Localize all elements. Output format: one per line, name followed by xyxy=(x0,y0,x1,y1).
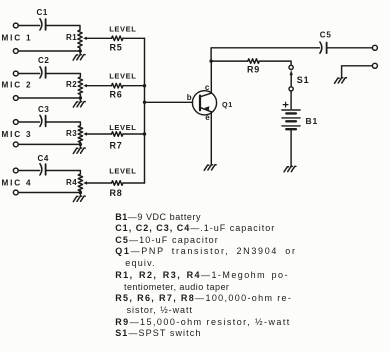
junction dot bus R7 xyxy=(143,132,146,135)
wire mic3 top xyxy=(18,121,39,123)
capacitor C4 xyxy=(40,164,46,175)
svg-text:R4: R4 xyxy=(66,178,77,187)
svg-text:MIC 1: MIC 1 xyxy=(2,33,33,42)
MIC 1 input jack terminals xyxy=(13,23,18,53)
svg-text:LEVEL: LEVEL xyxy=(109,123,136,132)
label + xyxy=(283,102,288,107)
MIC 2 input jack terminals xyxy=(13,71,18,100)
parts list line R1-R4 xyxy=(115,271,289,280)
svg-text:S1: S1 xyxy=(297,75,310,85)
parts list line R5-R8 xyxy=(115,294,292,303)
output terminal bottom xyxy=(372,63,377,68)
svg-text:R9: R9 xyxy=(247,65,260,75)
svg-text:R2: R2 xyxy=(66,80,77,89)
svg-text:C4: C4 xyxy=(38,154,49,163)
MIC 3 input jack terminals xyxy=(13,120,18,147)
capacitor C5 xyxy=(320,42,327,53)
parts list line C5 xyxy=(115,236,219,245)
wire summing bus xyxy=(144,38,146,183)
svg-text:C2: C2 xyxy=(38,56,49,65)
wire R3 bottom xyxy=(79,143,81,145)
parts list line equiv xyxy=(125,259,156,268)
parts list line S1 xyxy=(115,329,201,338)
transistor Q1 xyxy=(192,91,216,115)
ground under R4 xyxy=(73,193,85,202)
svg-text:R6: R6 xyxy=(110,90,123,100)
wire C4 to R4 top xyxy=(47,171,81,175)
wire mic1 top xyxy=(18,25,39,27)
potentiometer R4 xyxy=(78,174,82,191)
capacitor C3 xyxy=(40,115,46,126)
wire R6 to bus xyxy=(123,85,144,87)
battery B1 xyxy=(282,110,300,129)
wire R1 bottom to bus dot xyxy=(79,48,81,51)
parts list line sistor xyxy=(127,306,193,315)
wire bus to base xyxy=(145,101,193,103)
junction dot bus R6 xyxy=(143,84,146,87)
svg-text:R8: R8 xyxy=(110,188,123,198)
junction dot R2 bottom xyxy=(79,96,82,99)
wiper arrow R2 xyxy=(83,84,111,87)
capacitor C1 xyxy=(40,19,46,30)
wire output ground xyxy=(342,66,373,78)
wire C5 to output terminal xyxy=(328,47,373,49)
resistor R8 xyxy=(112,181,124,186)
parts list line Q1 xyxy=(115,247,296,256)
wire R2 bottom xyxy=(79,95,81,99)
parts list line B1 xyxy=(115,213,201,222)
potentiometer R2 xyxy=(78,77,82,95)
wire battery to ground xyxy=(290,130,292,166)
parts list line R9 xyxy=(115,318,291,327)
capacitor C2 xyxy=(40,67,46,78)
wire emitter down xyxy=(210,112,212,165)
junction dot bus base xyxy=(143,101,146,104)
svg-text:B1: B1 xyxy=(306,116,318,126)
ground battery xyxy=(284,166,296,172)
potentiometer R1 xyxy=(78,30,82,48)
svg-text:c: c xyxy=(205,83,210,92)
svg-text:R5: R5 xyxy=(110,42,123,52)
ground under R3 xyxy=(73,144,85,153)
wire R5 to bus xyxy=(123,37,144,39)
junction dot R3 bottom xyxy=(79,143,82,146)
wire R9 left segment xyxy=(211,60,248,62)
svg-text:LEVEL: LEVEL xyxy=(109,166,136,175)
resistor R6 xyxy=(112,83,124,88)
ground emitter xyxy=(204,165,216,171)
wire mic4 bottom xyxy=(18,192,80,194)
svg-text:MIC 2: MIC 2 xyxy=(2,81,33,90)
svg-text:R7: R7 xyxy=(110,141,123,151)
wiper arrow R4 xyxy=(83,181,111,184)
wire collector up xyxy=(210,61,212,93)
parts list line C1-C4 xyxy=(115,224,275,233)
svg-text:C3: C3 xyxy=(38,105,49,114)
wire mic2 bottom xyxy=(18,97,80,99)
svg-text:MIC 4: MIC 4 xyxy=(2,178,33,187)
wire mic4 top xyxy=(18,170,39,172)
parts list line tentiometer xyxy=(124,283,229,292)
svg-text:e: e xyxy=(205,113,210,122)
junction dot R1 bottom xyxy=(79,49,82,52)
svg-text:C1: C1 xyxy=(37,8,48,17)
wire collector to top rail xyxy=(211,48,320,61)
resistor R7 xyxy=(112,132,124,137)
wire R8 to bus xyxy=(123,182,144,184)
switch S1 xyxy=(289,65,293,91)
output terminal top xyxy=(372,45,377,50)
svg-text:b: b xyxy=(187,93,192,102)
ground under R1 xyxy=(73,51,85,60)
resistor R5 xyxy=(112,36,124,41)
junction dot collector/R9 xyxy=(209,59,212,62)
svg-text:R3: R3 xyxy=(66,129,77,138)
svg-text:R1: R1 xyxy=(66,33,77,42)
wire R4 bottom xyxy=(79,191,81,193)
MIC 4 input jack terminals xyxy=(13,168,18,195)
svg-text:LEVEL: LEVEL xyxy=(109,24,136,33)
wire mic2 top xyxy=(18,73,39,75)
junction dot R4 bottom xyxy=(79,191,82,194)
ground output xyxy=(335,78,347,83)
wire C1 to R1 top xyxy=(47,26,80,31)
wire mic1 bottom xyxy=(18,50,80,52)
wire R7 to bus xyxy=(123,133,144,135)
wire R9 to S1 xyxy=(259,61,291,65)
wire mic3 bottom xyxy=(18,143,80,145)
potentiometer R3 xyxy=(78,126,82,143)
svg-text:MIC 3: MIC 3 xyxy=(2,130,33,139)
wire C3 to R3 top xyxy=(47,122,81,126)
resistor R9 xyxy=(248,59,259,64)
wiper arrow R3 xyxy=(83,132,111,135)
wiper arrow R1 xyxy=(83,37,111,40)
ground under R2 xyxy=(73,98,85,107)
svg-text:LEVEL: LEVEL xyxy=(109,72,136,81)
wire S1 to battery xyxy=(290,91,292,109)
svg-text:C5: C5 xyxy=(320,30,332,39)
wire C2 to R2 top xyxy=(47,74,81,78)
svg-text:Q1: Q1 xyxy=(222,100,233,109)
